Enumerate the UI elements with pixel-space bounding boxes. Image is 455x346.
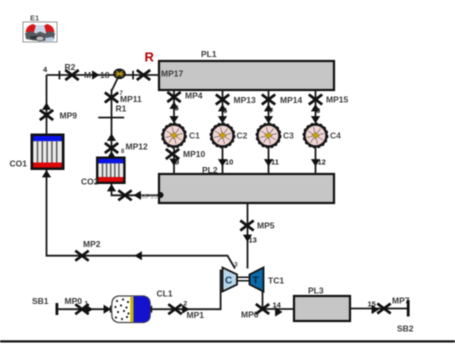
svg-text:8: 8 bbox=[316, 106, 320, 115]
svg-text:PL3: PL3 bbox=[308, 286, 324, 296]
svg-text:MP14: MP14 bbox=[280, 95, 302, 105]
flow arrow right bbox=[86, 305, 93, 314]
svg-text:5: 5 bbox=[175, 104, 179, 113]
svg-text:CL1: CL1 bbox=[157, 289, 173, 299]
svg-text:TC1: TC1 bbox=[268, 276, 284, 286]
svg-text:6: 6 bbox=[223, 106, 227, 115]
svg-text:SB1: SB1 bbox=[32, 296, 49, 306]
flow arrow down bbox=[243, 235, 252, 242]
svg-text:MP1: MP1 bbox=[187, 310, 205, 320]
flow arrow down bbox=[264, 159, 273, 166]
flow arrow up bbox=[264, 104, 273, 111]
svg-text:SB2: SB2 bbox=[397, 324, 414, 334]
flow arrow up bbox=[107, 134, 116, 141]
svg-text:R: R bbox=[145, 50, 155, 65]
flow arrow down into C3 bbox=[264, 116, 273, 123]
svg-text:C4: C4 bbox=[330, 131, 341, 141]
valve MP10 bbox=[166, 149, 179, 159]
svg-text:MP15: MP15 bbox=[326, 95, 348, 105]
flow arrow down bbox=[218, 159, 227, 166]
valve MP6 bbox=[256, 304, 269, 314]
svg-text:MP2: MP2 bbox=[83, 239, 101, 249]
wire C3 to PL2 bbox=[268, 148, 270, 175]
valve MP7 bbox=[377, 304, 390, 314]
svg-text:R1: R1 bbox=[116, 104, 127, 114]
svg-text:9: 9 bbox=[175, 158, 179, 167]
svg-text:R2: R2 bbox=[65, 62, 76, 72]
flow arrow right bbox=[372, 305, 379, 314]
svg-text:C2: C2 bbox=[237, 131, 248, 141]
valve R2 bbox=[65, 70, 78, 80]
svg-text:MP0: MP0 bbox=[65, 296, 83, 306]
wire turbine to MP6/PL3 bbox=[263, 292, 295, 310]
valve MP16 bbox=[118, 190, 131, 200]
svg-text:T: T bbox=[253, 276, 259, 287]
svg-text:MP5: MP5 bbox=[257, 221, 275, 231]
svg-text:MP10: MP10 bbox=[183, 149, 205, 159]
bottom separator line bbox=[0, 340, 455, 342]
wire CO1 bottom to MP2 line bbox=[47, 170, 236, 269]
valve MP11 bbox=[105, 93, 118, 103]
filter CL1 bbox=[110, 296, 152, 323]
wire CL1 to compressor bbox=[150, 270, 221, 310]
compressor C1 bbox=[162, 123, 186, 147]
svg-text:MP4: MP4 bbox=[185, 91, 203, 101]
valve MP12 bbox=[105, 143, 118, 153]
wire PL3 to SB2 bbox=[350, 308, 408, 310]
restrictor R1 bbox=[98, 117, 124, 119]
flow arrow down into C1 bbox=[169, 116, 178, 123]
flow arrow up bbox=[218, 104, 227, 111]
wire pump down branch to CO2 bbox=[112, 79, 118, 157]
svg-text:12: 12 bbox=[318, 158, 326, 167]
svg-text:E1: E1 bbox=[30, 14, 39, 23]
svg-text:CO1: CO1 bbox=[10, 159, 28, 169]
svg-text:10: 10 bbox=[225, 158, 233, 167]
svg-text:18: 18 bbox=[100, 70, 110, 80]
valve MP5 bbox=[240, 221, 253, 231]
svg-text:MP16: MP16 bbox=[141, 194, 158, 201]
valve MP2 bbox=[75, 251, 88, 261]
svg-text:CO2: CO2 bbox=[81, 177, 99, 187]
svg-text:MP11: MP11 bbox=[120, 94, 142, 104]
reducer tick bbox=[59, 71, 61, 80]
flow arrow bbox=[92, 70, 99, 79]
compressor C3 bbox=[256, 123, 280, 147]
flow arrow down into C4 bbox=[311, 116, 320, 123]
boundary SB2 bbox=[407, 300, 410, 317]
boundary SB1 bbox=[56, 303, 59, 315]
flow arrow left bbox=[134, 191, 141, 200]
flow arrow left bbox=[135, 251, 142, 260]
svg-text:C3: C3 bbox=[283, 131, 294, 141]
wire CO2 bottom to PL2 bbox=[112, 184, 160, 195]
svg-text:PL1: PL1 bbox=[201, 49, 217, 59]
valve MP1 bbox=[168, 304, 181, 314]
engine icon E1 bbox=[23, 22, 57, 42]
flow arrow up bbox=[311, 104, 320, 111]
svg-text:MP17: MP17 bbox=[161, 69, 183, 79]
valve MP15 bbox=[309, 95, 322, 105]
plenum PL2 bbox=[159, 174, 334, 203]
compressor C4 bbox=[303, 123, 327, 147]
flow arrow right bbox=[104, 305, 111, 314]
valve MP4 bbox=[167, 92, 180, 102]
wire PL2 to turbine bbox=[247, 203, 249, 269]
svg-text:3: 3 bbox=[234, 262, 238, 269]
flow arrow right bbox=[275, 307, 282, 316]
wire pump to PL1 bbox=[125, 74, 160, 76]
plenum PL3 bbox=[294, 296, 350, 321]
cooler CO2 bbox=[96, 157, 126, 185]
turbocharger TC1 bbox=[223, 268, 264, 292]
svg-text:11: 11 bbox=[271, 158, 279, 167]
valve MP17 bbox=[137, 70, 150, 80]
compressor C2 bbox=[210, 123, 234, 147]
wire C4 to PL2 bbox=[315, 148, 317, 175]
column 1: wire PL1 to C1 bbox=[173, 90, 175, 124]
wire SB1 to CL1 bbox=[57, 308, 112, 310]
svg-text:13: 13 bbox=[249, 236, 257, 245]
reducer tick bbox=[132, 71, 134, 80]
wire C1 to PL2 bbox=[173, 148, 175, 175]
flow arrow up into CO2 bbox=[107, 184, 116, 191]
junction node on PL2 bbox=[158, 192, 164, 198]
svg-text:7: 7 bbox=[269, 106, 273, 115]
valve MP0 bbox=[75, 304, 88, 314]
flow arrow down bbox=[169, 159, 178, 166]
svg-text:C: C bbox=[225, 276, 232, 287]
valve MP14 bbox=[262, 95, 275, 105]
valve MP13 bbox=[216, 95, 229, 105]
column 3: wire PL1 to C3 bbox=[268, 90, 270, 124]
flow arrow up into CO1 bbox=[42, 170, 51, 177]
svg-text:MP12: MP12 bbox=[126, 142, 148, 152]
svg-text:14: 14 bbox=[273, 301, 282, 310]
svg-text:MP9: MP9 bbox=[60, 111, 78, 121]
flow arrow down into C2 bbox=[218, 116, 227, 123]
valve MP9 bbox=[40, 110, 53, 120]
flow arrow down bbox=[311, 159, 320, 166]
column 4: wire PL1 to C4 bbox=[315, 90, 317, 124]
flow arrow up bbox=[169, 102, 178, 109]
wire C2 to PL2 bbox=[222, 148, 224, 175]
wire top-left horizontal 4-R2-MP18 bbox=[47, 74, 115, 76]
svg-text:M: M bbox=[84, 70, 91, 80]
column 2: wire PL1 to C2 bbox=[222, 90, 224, 124]
wire left vertical to CO1 bbox=[46, 75, 48, 134]
svg-text:PL2: PL2 bbox=[202, 165, 218, 175]
svg-text:MP13: MP13 bbox=[234, 95, 256, 105]
flow arrow up bbox=[42, 103, 51, 110]
svg-text:MP6: MP6 bbox=[241, 310, 259, 320]
pump R bbox=[114, 69, 125, 78]
flow arrow up into MP12 bbox=[107, 151, 116, 158]
flow arrow right bbox=[182, 305, 189, 314]
cooler CO1 bbox=[31, 134, 65, 171]
plenum PL1 bbox=[159, 61, 334, 90]
svg-text:C1: C1 bbox=[189, 131, 200, 141]
